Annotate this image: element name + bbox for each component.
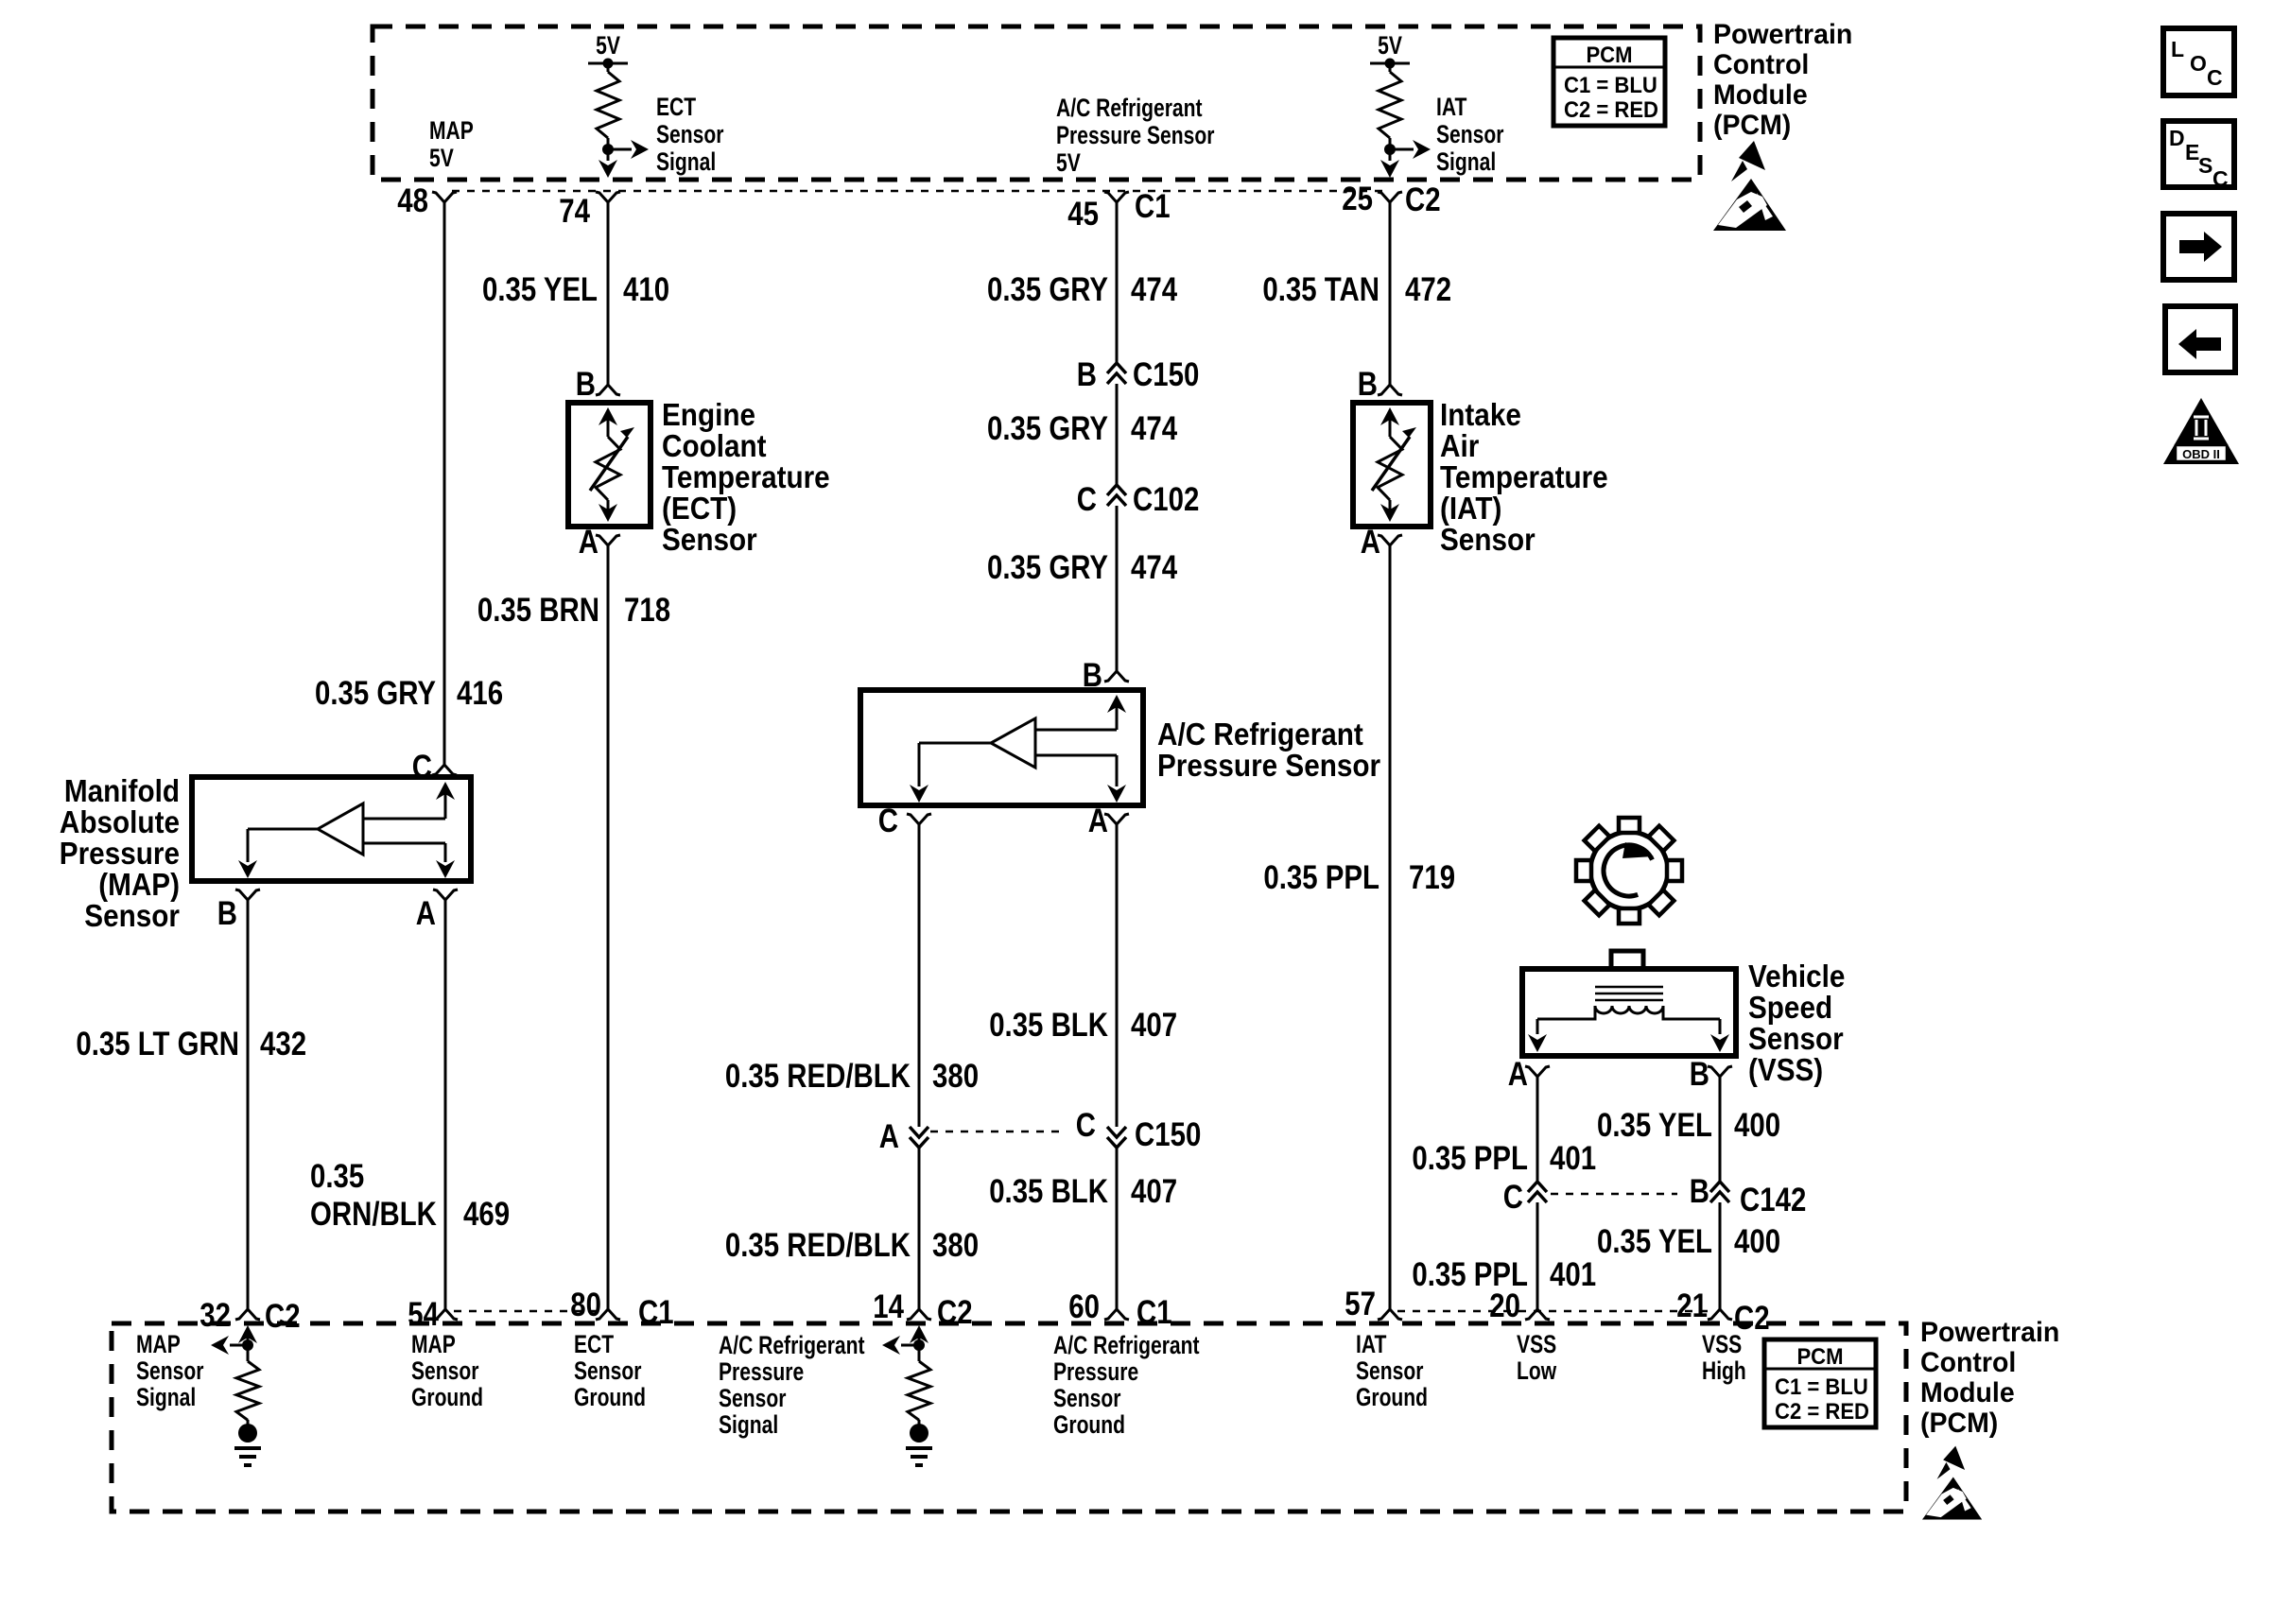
svg-text:Speed: Speed [1748,990,1832,1025]
svg-text:C2 = RED: C2 = RED [1775,1399,1869,1425]
svg-text:0.35 PPL: 0.35 PPL [1412,1140,1528,1177]
svg-text:401: 401 [1550,1256,1596,1293]
A/C signal input circuit (pin 14): arrow, resistor, ground [910,1325,928,1343]
svg-text:0.35 GRY: 0.35 GRY [987,549,1108,586]
pcm bottom pin interconnect (thin dashed) 54-80 [454,1310,600,1313]
svg-text:A/C Refrigerant: A/C Refrigerant [1056,94,1203,122]
wire: 0.35 LT GRN 432 (MAP B to pin 32) [247,900,250,1309]
svg-text:48: 48 [397,182,428,219]
pcm bottom pin interconnect (thin dashed) 57-20-21 [1397,1310,1712,1313]
svg-text:5V: 5V [596,31,620,60]
wire: 0.35 BLK 407 (A/C A to C150 C) [1116,824,1119,1127]
svg-text:432: 432 [260,1026,306,1063]
svg-text:B: B [1690,1056,1709,1093]
PCM connector legend box (top) [1553,38,1665,126]
PCM connector legend box (bottom) [1764,1339,1876,1427]
svg-text:C102: C102 [1133,481,1199,518]
node: ECT signal junction [602,144,614,155]
Vehicle Speed Sensor box [1522,969,1736,1056]
svg-text:ECT: ECT [574,1330,614,1358]
svg-text:401: 401 [1550,1140,1596,1177]
svg-text:Ground: Ground [1053,1410,1125,1439]
ground (MAP signal pull-down) [238,1424,257,1443]
svg-text:Signal: Signal [136,1383,196,1411]
VSS reluctor gear [1590,832,1668,909]
svg-text:C2: C2 [265,1298,301,1335]
svg-text:25: 25 [1342,181,1373,217]
svg-text:400: 400 [1734,1223,1780,1260]
svg-text:0.35 GRY: 0.35 GRY [315,675,436,712]
svg-text:Sensor: Sensor [411,1356,479,1385]
wire: 0.35 TAN 472 (pin 25 to IAT B) [1389,202,1392,385]
svg-text:45: 45 [1067,196,1099,233]
svg-text:IAT: IAT [1436,93,1467,121]
svg-text:0.35 YEL: 0.35 YEL [482,271,598,308]
svg-text:32: 32 [200,1297,231,1334]
svg-text:Sensor: Sensor [719,1384,787,1412]
svg-text:VSS: VSS [1702,1330,1742,1358]
svg-text:Sensor: Sensor [1356,1356,1424,1385]
svg-text:60: 60 [1068,1288,1100,1325]
svg-text:80: 80 [570,1287,601,1323]
svg-text:A: A [579,524,599,561]
wire: 0.35 GRY 474 (pin 45 to C150 B) [1116,202,1119,363]
svg-text:Temperature: Temperature [662,459,830,494]
svg-text:B: B [1077,356,1097,393]
svg-text:A: A [1361,524,1380,561]
svg-text:C1 = BLU: C1 = BLU [1775,1374,1868,1400]
wire: 0.35 GRY 474 (C102 to A/C sensor B) [1116,506,1119,671]
svg-text:Control: Control [1713,49,1809,80]
svg-text:474: 474 [1131,410,1178,447]
svg-text:(VSS): (VSS) [1748,1052,1823,1087]
svg-text:Sensor: Sensor [656,120,724,148]
resistor: IAT pull-up [1389,63,1392,72]
svg-text:Pressure: Pressure [1053,1357,1138,1386]
MAP sensor internals (op-amp) [436,782,455,800]
ECT sensor box [568,403,651,527]
svg-text:719: 719 [1409,859,1455,896]
svg-text:Engine: Engine [662,397,755,432]
svg-text:Module: Module [1713,79,1808,111]
svg-text:Sensor: Sensor [1440,522,1536,557]
wire: 0.35 BRN 718 (ECT A to pin 80) [607,545,610,1309]
svg-text:Sensor: Sensor [1748,1021,1844,1056]
svg-text:C: C [878,803,898,839]
svg-text:ECT: ECT [656,93,696,121]
svg-text:O: O [2190,51,2207,76]
svg-text:A: A [879,1118,899,1155]
svg-text:B: B [217,895,237,932]
svg-text:MAP: MAP [136,1330,181,1358]
svg-text:C: C [412,749,432,786]
svg-text:B: B [1690,1173,1709,1210]
svg-text:(ECT): (ECT) [662,491,737,526]
svg-text:Powertrain: Powertrain [1920,1317,2059,1348]
svg-text:A/C Refrigerant: A/C Refrigerant [1157,717,1363,752]
icon: next arrow button [2163,214,2234,280]
svg-text:A: A [416,895,436,932]
svg-text:A: A [1088,803,1108,839]
svg-text:0.35 BLK: 0.35 BLK [989,1007,1108,1044]
svg-text:Sensor: Sensor [84,898,180,933]
svg-text:380: 380 [932,1227,979,1264]
svg-text:OBD II: OBD II [2182,447,2220,461]
svg-text:410: 410 [623,271,669,308]
svg-text:C2 = RED: C2 = RED [1564,97,1658,123]
svg-text:Signal: Signal [656,147,716,176]
svg-text:Powertrain: Powertrain [1713,19,1852,50]
svg-text:MAP: MAP [411,1330,456,1358]
svg-text:A/C Refrigerant: A/C Refrigerant [719,1331,865,1359]
svg-text:74: 74 [559,193,590,230]
wire: 0.35 PPL 401 (VSS A to C142 C) [1536,1077,1539,1182]
svg-text:IAT: IAT [1356,1330,1387,1358]
svg-text:C: C [2212,166,2229,191]
svg-text:0.35 RED/BLK: 0.35 RED/BLK [725,1058,911,1095]
svg-text:C: C [2207,65,2223,90]
wire: IAT sensor signal arrow [1390,148,1414,151]
svg-text:A: A [1508,1056,1528,1093]
svg-text:Module: Module [1920,1377,2015,1408]
A/C pressure sensor internals (op-amp) [1107,695,1126,713]
svg-text:Pressure Sensor: Pressure Sensor [1056,121,1215,149]
svg-text:Low: Low [1517,1356,1557,1385]
svg-text:407: 407 [1131,1007,1177,1044]
svg-text:0.35 GRY: 0.35 GRY [987,271,1108,308]
icon: OBD II symbol [2163,398,2239,464]
svg-text:0.35 TAN: 0.35 TAN [1262,271,1379,308]
svg-text:0.35 RED/BLK: 0.35 RED/BLK [725,1227,911,1264]
svg-text:57: 57 [1345,1286,1376,1322]
svg-text:C150: C150 [1135,1116,1201,1153]
svg-text:416: 416 [457,675,503,712]
wire: IAT signal down to pin 25 [1389,149,1392,161]
MAP signal input circuit (pin 32): arrow, resistor, ground [238,1325,257,1343]
icon: DESC button [2163,121,2234,187]
wire: 0.35 RED/BLK 380 (C150 to pin 14) [918,1148,921,1309]
wire: 0.35 GRY 474 (C150 to C102) [1116,384,1119,484]
PCM top module boundary (dashed box) [373,26,1700,180]
wire: 0.35 YEL 400 (VSS B to C142 B) [1719,1077,1722,1182]
svg-text:0.35 YEL: 0.35 YEL [1597,1107,1712,1144]
pcm top pin interconnect (thin dashed) [452,190,1382,193]
svg-text:Coolant: Coolant [662,428,767,463]
svg-text:Pressure: Pressure [719,1357,804,1386]
icon: prev arrow button [2165,306,2235,372]
svg-text:0.35 BRN: 0.35 BRN [477,592,599,629]
svg-text:474: 474 [1131,549,1178,586]
svg-text:5V: 5V [1056,148,1081,177]
wire: 0.35 PPL 719 (IAT A to pin 57) [1389,545,1392,1309]
svg-text:Control: Control [1920,1347,2016,1378]
svg-text:Sensor: Sensor [136,1356,204,1385]
svg-text:(PCM): (PCM) [1920,1408,1998,1439]
ECT thermistor [599,407,617,425]
IAT thermistor [1380,407,1399,425]
svg-text:C1 = BLU: C1 = BLU [1564,73,1657,98]
svg-text:C: C [1077,481,1097,518]
svg-text:Intake: Intake [1440,397,1521,432]
PCM bottom module boundary (dashed box) [112,1323,1906,1512]
wire: 0.35 YEL 400 (C142 to pin 21) [1719,1202,1722,1309]
svg-text:20: 20 [1489,1287,1520,1324]
ESD warning symbol (top) [1713,141,1786,231]
svg-text:Sensor: Sensor [1053,1384,1121,1412]
icon: LOC button [2163,28,2234,95]
svg-text:Signal: Signal [1436,147,1496,176]
svg-text:(MAP): (MAP) [98,867,180,902]
svg-text:Sensor: Sensor [1436,120,1504,148]
svg-text:VSS: VSS [1517,1330,1556,1358]
wire: 0.35 PPL 401 (C142 to pin 20) [1536,1202,1539,1309]
VSS mounting tab [1611,951,1643,969]
svg-text:5V: 5V [429,144,454,172]
svg-text:A/C Refrigerant: A/C Refrigerant [1053,1331,1200,1359]
svg-text:Air: Air [1440,428,1479,463]
svg-text:472: 472 [1405,271,1451,308]
svg-text:0.35 GRY: 0.35 GRY [987,410,1108,447]
svg-text:0.35 LT GRN: 0.35 LT GRN [76,1026,239,1063]
svg-text:54: 54 [408,1296,439,1333]
svg-text:C: C [1076,1107,1096,1144]
svg-text:380: 380 [932,1058,979,1095]
svg-text:469: 469 [463,1196,510,1233]
wire: C150 mating line (thin dashed) [930,1131,1067,1133]
A/C Refrigerant Pressure Sensor box [860,690,1143,805]
svg-text:718: 718 [624,592,670,629]
wire: ECT sensor signal arrow (to label) [608,148,632,151]
svg-text:400: 400 [1734,1107,1780,1144]
svg-text:5V: 5V [1378,31,1402,60]
svg-text:0.35 YEL: 0.35 YEL [1597,1223,1712,1260]
svg-text:474: 474 [1131,271,1178,308]
svg-text:L: L [2171,37,2184,61]
wire: 0.35 BLK 407 (C150 to pin 60) [1116,1148,1119,1309]
svg-text:(PCM): (PCM) [1713,110,1791,141]
wire: ECT signal down to pin 74 [607,149,610,161]
wire: 0.35 RED/BLK 380 (A/C C to C150 A) [918,824,921,1127]
wire: C142 mating line (thin dashed) [1551,1193,1677,1196]
svg-text:Sensor: Sensor [574,1356,642,1385]
svg-text:S: S [2198,153,2212,178]
svg-text:B: B [1358,366,1378,403]
svg-text:Temperature: Temperature [1440,459,1608,494]
svg-text:C2: C2 [1405,181,1441,218]
ESD warning symbol (bottom) [1922,1446,1982,1520]
svg-text:407: 407 [1131,1173,1177,1210]
svg-text:Sensor: Sensor [662,522,757,557]
svg-text:MAP: MAP [429,116,474,145]
svg-text:High: High [1702,1356,1746,1385]
wire: 0.35 GRY 416 (pin 48 to MAP C) [443,202,446,765]
svg-text:(IAT): (IAT) [1440,491,1501,526]
IAT sensor box [1353,403,1431,527]
VSS pickup coil [1595,987,1663,1000]
svg-text:Ground: Ground [1356,1383,1428,1411]
svg-text:14: 14 [873,1288,904,1325]
svg-text:C142: C142 [1740,1182,1806,1218]
svg-text:C1: C1 [1135,188,1171,225]
svg-text:0.35 PPL: 0.35 PPL [1263,859,1379,896]
MAP sensor box [192,777,471,881]
ground (A/C signal pull-down) [910,1424,928,1443]
svg-text:PCM: PCM [1796,1344,1843,1370]
wire: 0.35 ORN/BLK 469 (MAP A to pin 54) [444,900,447,1309]
svg-text:ORN/BLK: ORN/BLK [310,1196,437,1233]
svg-text:0.35: 0.35 [310,1158,364,1195]
svg-text:Vehicle: Vehicle [1748,959,1845,993]
svg-text:B: B [576,366,596,403]
svg-text:Pressure Sensor: Pressure Sensor [1157,748,1380,783]
svg-text:Pressure: Pressure [60,836,180,871]
svg-text:D: D [2169,126,2185,150]
svg-text:C: C [1503,1179,1523,1216]
svg-text:21: 21 [1676,1287,1708,1324]
svg-text:Manifold: Manifold [64,773,180,808]
svg-text:PCM: PCM [1586,43,1632,68]
resistor: ECT pull-up [607,63,610,72]
svg-text:Ground: Ground [574,1383,646,1411]
wire: 0.35 YEL 410 (pin 74 to ECT B) [607,202,610,385]
svg-text:Absolute: Absolute [60,804,180,839]
svg-text:C150: C150 [1133,356,1199,393]
svg-text:Ground: Ground [411,1383,483,1411]
svg-text:0.35 BLK: 0.35 BLK [989,1173,1108,1210]
svg-text:Signal: Signal [719,1410,778,1439]
node: IAT signal junction [1384,144,1396,155]
